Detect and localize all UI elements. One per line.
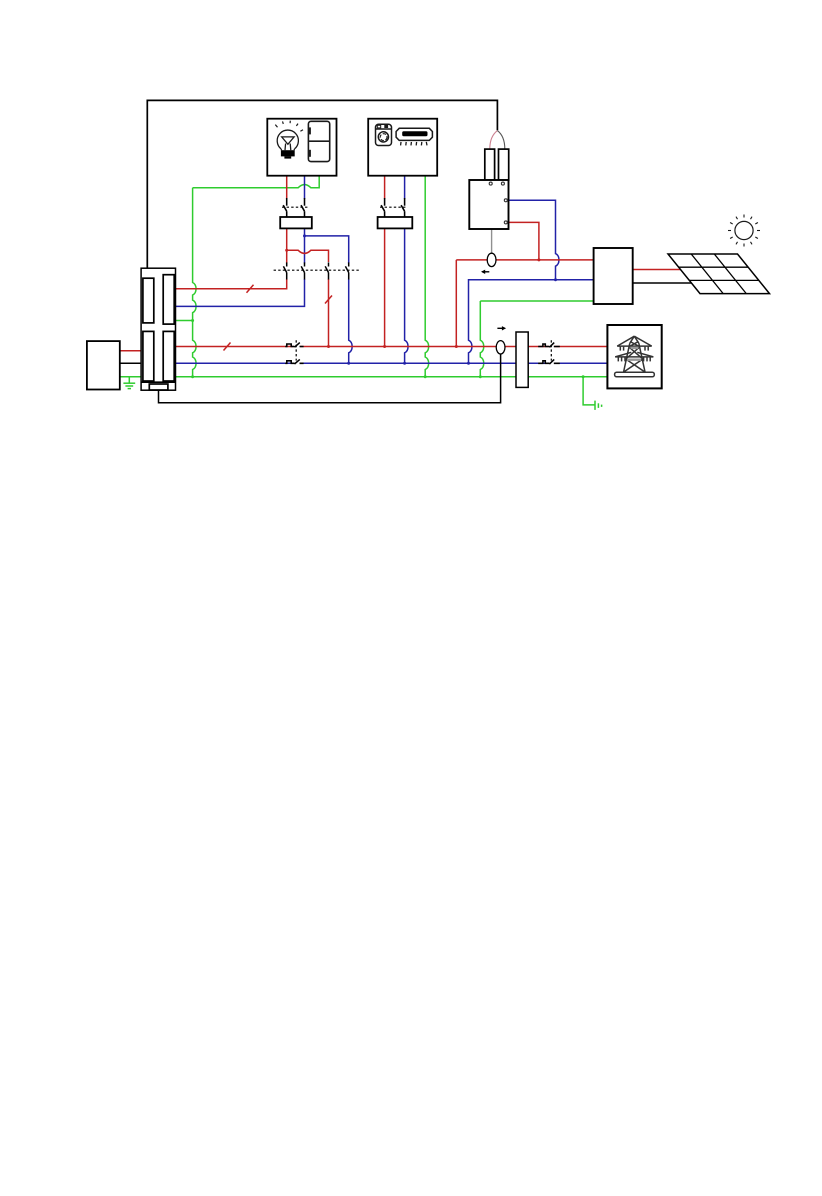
wire: blue heater-unit loop to inverter [469, 200, 594, 363]
wire: green main bus y=376.7 busbar to grid box [176, 376, 608, 378]
breaker: 2-pole fused switch on main bus at x=285-304 [294, 347, 554, 364]
wire: green heater-unit drop x=480.3 with hops [480, 301, 483, 377]
wire: black from left box to busbar y=363.3 [120, 362, 141, 364]
busbar: inner rect top-right [163, 275, 174, 324]
wire: blue branch y=235.9 from app1 column to x=348.7 [305, 236, 349, 278]
wire: blue x=348.7 down to blue bus with hop over red bus [349, 262, 352, 363]
wire: green horizontal y=301 to inverter [480, 300, 593, 302]
heater unit: element pillar left [485, 149, 495, 180]
marker: red slash on upper red row [247, 285, 254, 293]
terminal block app1 [280, 217, 312, 228]
wire: red app2 drop above breaker [384, 176, 386, 199]
solar panel [668, 254, 770, 294]
breaker: 2-pole MCB app2 (vertical) [381, 198, 405, 217]
wire: green earth branch at left box x=129.3 [128, 377, 130, 383]
marker: left arrow under heater CT [481, 270, 489, 274]
busbar: bottom terminal rect [149, 384, 168, 390]
marker: red slash on branch x=328.5 [325, 296, 332, 304]
sun [735, 221, 753, 239]
wire: red main bus y=346.5 busbar to grid box [176, 346, 608, 348]
grid box [607, 325, 661, 388]
wire: black return busbar bottom to grid meter [159, 354, 501, 403]
heater unit: terminals [489, 182, 507, 224]
wire: green from left box to busbar y=376.7 [120, 376, 141, 378]
breaker: main-bus pair tie dashed line x=296.2 [295, 340, 297, 360]
left box (battery / meter) [87, 341, 120, 389]
busbar: inner rect bottom-right [163, 331, 174, 381]
wire: red x=456.3 down to red bus [455, 260, 457, 347]
busbar: inner rect top-left [143, 278, 154, 323]
switch: 4-pole tie dashed line y=270.2 [274, 269, 360, 271]
breaker: app1 MCB tie dashed line [282, 206, 309, 208]
wire: green earth branch at x=583.1 [583, 377, 595, 405]
inverter box [594, 248, 633, 304]
busbar: distribution board outer [141, 268, 175, 390]
icon: transmission pylon [615, 336, 655, 377]
wire: blue upper busbar row y=306.4 to app1 column [176, 228, 305, 306]
wire: black outline from busbar top to heater unit [147, 100, 497, 268]
wire: red inverter to solar panel y=269.5 [633, 269, 681, 271]
breaker: grid-side pair tie dashed line x=551.3 [550, 340, 552, 360]
wire: red branch y=250.3 from app1 column to x=328.5 with dip under blue [287, 250, 329, 262]
heater unit: element pillar right [499, 149, 509, 180]
appliance box 1 (lights + fridge) [267, 119, 336, 176]
busbar: inner rect bottom-left [143, 331, 154, 381]
isolator: white rectangle across the three buses [516, 332, 528, 387]
terminal block app2 [378, 217, 413, 228]
wire: black inverter to solar panel y=283 [633, 282, 692, 284]
busbar: bottom plate line [141, 381, 175, 383]
icon: pylon waist bars (gray) [627, 348, 641, 360]
wire: red from heater-unit terminal to x=538.9 down [506, 222, 539, 260]
wire: blue app2 drop above breaker [404, 176, 406, 199]
wire: gray stem heater-unit to CT ellipse [491, 229, 493, 253]
wire: red app1 drop above breaker [286, 176, 288, 199]
wire: blue app2 drop to blue bus with hop over red bus [405, 228, 408, 363]
breaker: 2-pole MCB app1 (vertical, black overlays + blades) [283, 198, 304, 217]
wire: green app2 drop x=425.2 with hops over red/blue bus [425, 176, 428, 377]
icon: bulb rays [275, 121, 303, 132]
breaker: 2-pole fused switch grid side x=538-560 [538, 343, 560, 365]
icon: light bulb [277, 130, 298, 150]
meter: main import/export CT ellipse [496, 341, 505, 354]
icon: refrigerator [308, 121, 329, 161]
icon: bulb base (filled) [281, 150, 295, 156]
wire: green stub busbar to trunk y=320.5 [176, 320, 193, 322]
wire: red x=328.5 down to red bus [328, 278, 330, 347]
switch: 4-pole linked isolator at y=270 (poles x=286.7,304.5,328.5,348.7) [287, 263, 349, 279]
wire: green trunk vertical x=192.6 with hops over red/blue rows [193, 188, 196, 377]
heater unit: flame arcs [490, 131, 498, 149]
wire: red app2 drop to red bus [384, 228, 386, 346]
wire: blue main bus y=363.3 busbar to grid box [176, 362, 608, 364]
meter: CT ellipse at heater unit [487, 253, 496, 266]
heater unit: body box [469, 180, 508, 229]
icon: washing machine [376, 124, 392, 145]
junction dots [285, 249, 540, 348]
breaker: app2 MCB tie dashed line [380, 206, 407, 208]
wire: red heater-unit row y=259.9 to inverter [456, 259, 593, 261]
marker: right arrow above main CT [497, 326, 506, 330]
wire: red upper busbar row y=288.8 to app1 column [176, 228, 287, 288]
wire: red from left box to busbar y=350.7 [120, 350, 141, 352]
appliance box 2 (washer + heater) [368, 119, 437, 176]
wire: green horizontal y=187.7 app1 to trunk, hop over blue [193, 176, 320, 188]
wire: blue app1 drop above breaker [304, 176, 306, 199]
marker: red slash on red bus [224, 343, 231, 351]
icon: electric heater [396, 128, 432, 140]
ground: earth symbol (green, right-facing) [595, 401, 602, 410]
ground: earth symbol (green, down-facing) at left box [123, 383, 135, 388]
